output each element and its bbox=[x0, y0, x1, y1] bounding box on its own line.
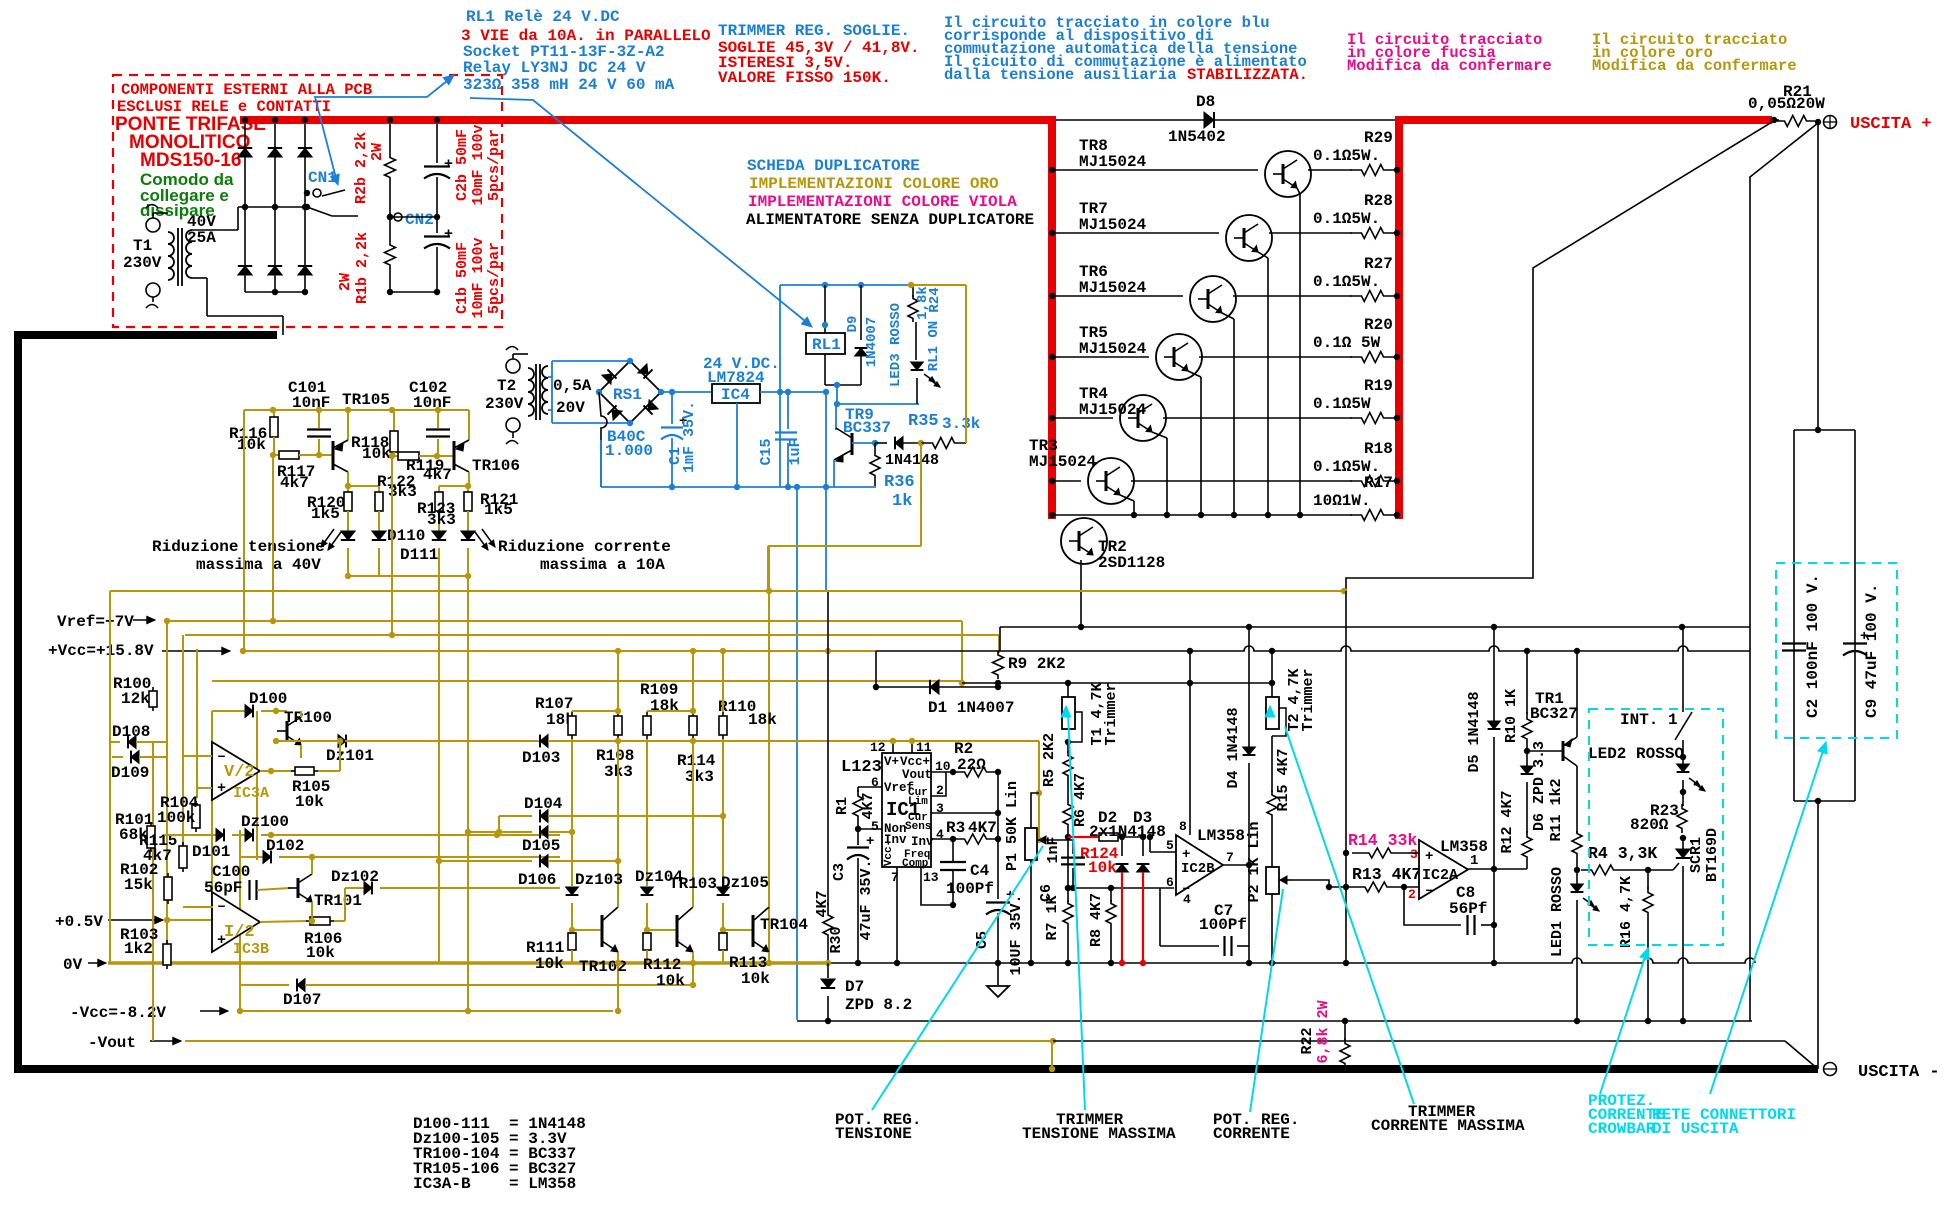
svg-text:SCHEDA DUPLICATORE: SCHEDA DUPLICATORE bbox=[747, 157, 920, 175]
svg-text:25A: 25A bbox=[187, 229, 216, 247]
svg-text:SCR1: SCR1 bbox=[1688, 837, 1705, 873]
svg-text:LM358: LM358 bbox=[1440, 838, 1488, 856]
svg-text:12: 12 bbox=[870, 740, 886, 755]
svg-text:R29: R29 bbox=[1364, 129, 1393, 147]
svg-text:2W: 2W bbox=[369, 143, 386, 161]
svg-text:-Vcc=-8.2V: -Vcc=-8.2V bbox=[70, 1004, 166, 1022]
svg-text:D105: D105 bbox=[522, 837, 560, 855]
svg-text:1k5: 1k5 bbox=[484, 501, 513, 519]
svg-text:3.3k: 3.3k bbox=[942, 415, 981, 433]
svg-text:R36: R36 bbox=[884, 473, 915, 492]
svg-text:R2b 2,2k: R2b 2,2k bbox=[353, 132, 370, 204]
svg-text:R6 4K7: R6 4K7 bbox=[1072, 773, 1089, 827]
svg-text:3k3: 3k3 bbox=[685, 768, 714, 786]
svg-text:C2b 50mF: C2b 50mF bbox=[454, 129, 471, 201]
svg-text:5: 5 bbox=[871, 819, 879, 834]
svg-text:10k: 10k bbox=[237, 436, 266, 454]
svg-text:C9 47uF 100 V.: C9 47uF 100 V. bbox=[1863, 584, 1881, 718]
svg-text:D1 1N4007: D1 1N4007 bbox=[928, 699, 1014, 717]
svg-text:Vcc-: Vcc- bbox=[883, 840, 895, 866]
svg-text:CN2: CN2 bbox=[405, 211, 434, 229]
svg-text:V/2: V/2 bbox=[224, 763, 255, 782]
svg-text:D100: D100 bbox=[249, 690, 287, 708]
svg-text:0.1Ω 5W: 0.1Ω 5W bbox=[1313, 334, 1381, 352]
svg-text:ALIMENTATORE SENZA DUPLICATORE: ALIMENTATORE SENZA DUPLICATORE bbox=[746, 211, 1034, 229]
svg-text:1.000: 1.000 bbox=[605, 442, 653, 460]
svg-text:+0.5V: +0.5V bbox=[55, 913, 103, 931]
svg-text:TR101: TR101 bbox=[314, 892, 362, 910]
svg-text:IC3B: IC3B bbox=[233, 941, 269, 958]
svg-text:MJ15024: MJ15024 bbox=[1079, 340, 1147, 358]
svg-text:10nF: 10nF bbox=[292, 394, 330, 412]
svg-text:TR100: TR100 bbox=[284, 709, 332, 727]
svg-text:10mF 100v: 10mF 100v bbox=[470, 237, 487, 318]
svg-text:4k7: 4k7 bbox=[423, 466, 452, 484]
svg-text:10mF 100v: 10mF 100v bbox=[470, 124, 487, 205]
svg-text:1mF 35V.: 1mF 35V. bbox=[681, 401, 698, 473]
svg-text:R1b 2,2k: R1b 2,2k bbox=[354, 232, 371, 304]
svg-text:IC2B: IC2B bbox=[1181, 861, 1215, 877]
svg-text:ZPD 8.2: ZPD 8.2 bbox=[845, 996, 912, 1014]
svg-text:R20: R20 bbox=[1364, 316, 1393, 334]
svg-text:100Pf: 100Pf bbox=[946, 880, 994, 898]
svg-text:TR106: TR106 bbox=[472, 457, 520, 475]
svg-text:0.1Ω5W.: 0.1Ω5W. bbox=[1313, 210, 1380, 228]
svg-text:R19: R19 bbox=[1364, 377, 1393, 395]
svg-text:I/2: I/2 bbox=[224, 923, 255, 942]
svg-text:+Vcc=+15.8V: +Vcc=+15.8V bbox=[48, 642, 154, 660]
svg-text:BC337: BC337 bbox=[843, 419, 891, 437]
svg-text:1N5402: 1N5402 bbox=[1168, 128, 1226, 146]
svg-text:D103: D103 bbox=[522, 749, 560, 767]
svg-text:3k3: 3k3 bbox=[427, 511, 456, 529]
svg-text:R24: R24 bbox=[927, 287, 943, 312]
svg-text:R30: R30 bbox=[828, 926, 845, 953]
svg-text:R1: R1 bbox=[834, 797, 851, 815]
svg-text:MJ15024: MJ15024 bbox=[1079, 279, 1147, 297]
svg-text:18k: 18k bbox=[748, 711, 777, 729]
svg-text:Riduzione corrente: Riduzione corrente bbox=[498, 538, 671, 556]
svg-text:0.1Ω5W.: 0.1Ω5W. bbox=[1313, 147, 1380, 165]
svg-text:230V: 230V bbox=[485, 395, 524, 413]
svg-text:LED3 ROSSO: LED3 ROSSO bbox=[888, 303, 904, 387]
svg-text:R10 1K: R10 1K bbox=[1503, 689, 1520, 743]
svg-text:10Ω1W.: 10Ω1W. bbox=[1313, 492, 1371, 510]
svg-text:R22: R22 bbox=[1299, 1027, 1316, 1054]
svg-text:10k: 10k bbox=[741, 970, 770, 988]
svg-text:R17: R17 bbox=[1364, 474, 1393, 492]
svg-text:Vref=+7V: Vref=+7V bbox=[57, 613, 134, 631]
svg-text:R13 4K7: R13 4K7 bbox=[1352, 865, 1421, 884]
svg-text:TR105: TR105 bbox=[342, 391, 390, 409]
svg-text:R12 4K7: R12 4K7 bbox=[1499, 790, 1516, 853]
svg-text:6: 6 bbox=[1166, 875, 1174, 890]
svg-text:+: + bbox=[444, 156, 453, 173]
svg-text:5pcs/par: 5pcs/par bbox=[486, 242, 503, 314]
svg-text:R3: R3 bbox=[946, 819, 965, 837]
svg-text:4k7: 4k7 bbox=[280, 474, 309, 492]
svg-text:323Ω 358 mH 24 V 60 mA: 323Ω 358 mH 24 V 60 mA bbox=[463, 76, 675, 94]
svg-text:C2 100nF 100 V.: C2 100nF 100 V. bbox=[1804, 574, 1822, 718]
svg-text:R8 4K7: R8 4K7 bbox=[1088, 893, 1105, 947]
svg-text:10k: 10k bbox=[306, 944, 335, 962]
svg-text:Trimmer: Trimmer bbox=[1300, 668, 1317, 731]
svg-text:BC327: BC327 bbox=[1530, 705, 1578, 723]
svg-text:1: 1 bbox=[1470, 853, 1478, 869]
svg-text:10k: 10k bbox=[295, 793, 324, 811]
svg-text:D101: D101 bbox=[192, 843, 230, 861]
svg-text:Vout: Vout bbox=[902, 768, 932, 782]
svg-text:TENSIONE: TENSIONE bbox=[835, 1125, 912, 1143]
svg-text:10nF: 10nF bbox=[413, 394, 451, 412]
svg-text:TR103: TR103 bbox=[669, 875, 717, 893]
svg-text:P1 50K Lin: P1 50K Lin bbox=[1004, 781, 1021, 871]
svg-text:5: 5 bbox=[1166, 838, 1174, 853]
svg-text:12k: 12k bbox=[121, 690, 150, 708]
svg-text:RL1: RL1 bbox=[812, 336, 841, 354]
svg-text:2W: 2W bbox=[337, 273, 354, 291]
svg-text:D5 1N4148: D5 1N4148 bbox=[1466, 691, 1483, 772]
svg-text:10k: 10k bbox=[656, 972, 685, 990]
svg-text:15k: 15k bbox=[124, 876, 153, 894]
svg-text:4K7: 4K7 bbox=[860, 792, 877, 819]
svg-text:Dz103: Dz103 bbox=[575, 871, 623, 889]
svg-text:Trimmer: Trimmer bbox=[1103, 682, 1120, 745]
svg-text:C3: C3 bbox=[831, 863, 848, 881]
svg-text:56pF: 56pF bbox=[204, 879, 242, 897]
svg-text:+: + bbox=[444, 226, 453, 243]
svg-text:R9 2K2: R9 2K2 bbox=[1008, 655, 1066, 673]
svg-text:3: 3 bbox=[1410, 847, 1418, 862]
svg-text:0V: 0V bbox=[63, 956, 83, 974]
svg-text:TENSIONE MASSIMA: TENSIONE MASSIMA bbox=[1022, 1125, 1176, 1143]
svg-text:IC2A: IC2A bbox=[1422, 867, 1458, 884]
svg-text:+: + bbox=[217, 780, 226, 797]
svg-text:D6 ZPD 3.3: D6 ZPD 3.3 bbox=[1531, 741, 1548, 831]
svg-text:IMPLEMENTAZIONI COLORE ORO: IMPLEMENTAZIONI COLORE ORO bbox=[749, 175, 999, 193]
svg-text:MJ15024: MJ15024 bbox=[1079, 401, 1147, 419]
svg-text:C6: C6 bbox=[1038, 884, 1055, 902]
svg-text:BT169D: BT169D bbox=[1704, 828, 1721, 882]
svg-text:D108: D108 bbox=[112, 723, 150, 741]
svg-text:D8: D8 bbox=[1196, 93, 1215, 111]
svg-text:C15: C15 bbox=[758, 438, 775, 465]
svg-text:R28: R28 bbox=[1364, 192, 1393, 210]
svg-text:10UF 35V.: 10UF 35V. bbox=[1008, 894, 1025, 975]
svg-text:2x1N4148: 2x1N4148 bbox=[1089, 823, 1166, 841]
svg-text:Dz100: Dz100 bbox=[241, 813, 289, 831]
svg-text:1nF: 1nF bbox=[1045, 836, 1062, 863]
svg-text:USCITA +: USCITA + bbox=[1850, 115, 1932, 134]
svg-text:D107: D107 bbox=[283, 991, 321, 1009]
svg-text:R16 4,7K: R16 4,7K bbox=[1618, 876, 1635, 948]
svg-text:+: + bbox=[1425, 849, 1433, 865]
svg-text:R14 33k: R14 33k bbox=[1348, 831, 1417, 850]
svg-text:820Ω: 820Ω bbox=[1630, 816, 1669, 834]
svg-text:dalla tensione ausiliaria: dalla tensione ausiliaria bbox=[944, 66, 1186, 84]
svg-text:7: 7 bbox=[1226, 850, 1234, 865]
svg-text:4K7: 4K7 bbox=[814, 890, 831, 917]
svg-text:Inv: Inv bbox=[911, 835, 934, 849]
svg-text:10k: 10k bbox=[362, 445, 391, 463]
svg-text:Riduzione tensione: Riduzione tensione bbox=[152, 538, 325, 556]
svg-text:Modifica da confermare: Modifica da confermare bbox=[1592, 57, 1797, 75]
svg-text:R27: R27 bbox=[1364, 255, 1393, 273]
svg-text:100k: 100k bbox=[157, 809, 196, 827]
svg-text:R35: R35 bbox=[908, 412, 939, 431]
svg-text:1k5: 1k5 bbox=[311, 505, 340, 523]
svg-text:CORRENTE MASSIMA: CORRENTE MASSIMA bbox=[1371, 1117, 1525, 1135]
svg-text:8: 8 bbox=[1179, 819, 1187, 834]
svg-text:D7: D7 bbox=[845, 978, 864, 996]
svg-text:0,05Ω20W: 0,05Ω20W bbox=[1748, 95, 1825, 113]
svg-text:RL1 ON: RL1 ON bbox=[926, 321, 942, 371]
svg-text:6,8k 2W: 6,8k 2W bbox=[1315, 1000, 1332, 1063]
svg-text:C1b 50mF: C1b 50mF bbox=[454, 242, 471, 314]
svg-text:1N4007: 1N4007 bbox=[864, 317, 880, 367]
svg-text:20V: 20V bbox=[556, 399, 585, 417]
svg-text:Dz105: Dz105 bbox=[721, 874, 769, 892]
svg-text:+: + bbox=[866, 834, 874, 850]
svg-text:T2: T2 bbox=[497, 377, 516, 395]
svg-text:–: – bbox=[1425, 883, 1433, 899]
svg-text:D106: D106 bbox=[518, 871, 556, 889]
svg-text:R11 1k2: R11 1k2 bbox=[1548, 778, 1565, 841]
svg-text:R5 2K2: R5 2K2 bbox=[1041, 733, 1058, 787]
svg-text:1uF: 1uF bbox=[787, 438, 804, 465]
svg-text:C4: C4 bbox=[970, 862, 990, 880]
svg-text:1k2: 1k2 bbox=[124, 940, 153, 958]
svg-text:11: 11 bbox=[916, 740, 932, 755]
svg-text:Dz101: Dz101 bbox=[326, 747, 374, 765]
svg-text:4: 4 bbox=[1183, 892, 1191, 907]
svg-text:RL1 Relè 24 V.DC: RL1 Relè 24 V.DC bbox=[466, 8, 620, 26]
svg-text:Relay LY3NJ DC 24 V: Relay LY3NJ DC 24 V bbox=[463, 59, 646, 77]
svg-text:–: – bbox=[217, 898, 226, 915]
svg-text:IMPLEMENTAZIONI COLORE VIOLA: IMPLEMENTAZIONI COLORE VIOLA bbox=[748, 193, 1017, 211]
svg-text:MJ15024: MJ15024 bbox=[1079, 153, 1147, 171]
svg-text:IC4: IC4 bbox=[721, 386, 750, 404]
svg-text:LED2 ROSSO: LED2 ROSSO bbox=[1588, 745, 1684, 763]
svg-text:0,5A: 0,5A bbox=[553, 377, 592, 395]
svg-text:5pcs/par: 5pcs/par bbox=[486, 129, 503, 201]
svg-text:IC3A: IC3A bbox=[233, 785, 269, 802]
svg-text:D104: D104 bbox=[524, 795, 563, 813]
svg-text:TR104: TR104 bbox=[760, 916, 808, 934]
svg-text:R18: R18 bbox=[1364, 440, 1393, 458]
svg-text:230V: 230V bbox=[123, 254, 162, 272]
svg-text:D4 1N4148: D4 1N4148 bbox=[1225, 707, 1242, 788]
svg-text:0.1Ω5W.: 0.1Ω5W. bbox=[1313, 273, 1380, 291]
svg-text:MJ15024: MJ15024 bbox=[1079, 216, 1147, 234]
svg-text:D111: D111 bbox=[400, 546, 438, 564]
svg-text:10k: 10k bbox=[535, 955, 564, 973]
svg-text:Vcc+: Vcc+ bbox=[900, 755, 930, 769]
svg-text:Comp: Comp bbox=[902, 858, 929, 870]
svg-text:D9: D9 bbox=[845, 316, 861, 333]
svg-text:-Vout: -Vout bbox=[88, 1034, 136, 1052]
svg-text:MDS150-16: MDS150-16 bbox=[140, 150, 241, 171]
svg-text:13: 13 bbox=[923, 870, 939, 885]
svg-text:47uF 35V.: 47uF 35V. bbox=[858, 859, 875, 940]
svg-text:IC3A-B = LM358: IC3A-B = LM358 bbox=[413, 1175, 576, 1193]
svg-text:Modifica da confermare: Modifica da confermare bbox=[1347, 57, 1552, 75]
svg-text:0.1Ω5W: 0.1Ω5W bbox=[1313, 395, 1371, 413]
svg-text:R15 4K7: R15 4K7 bbox=[1275, 748, 1292, 811]
svg-text:2SD1128: 2SD1128 bbox=[1098, 554, 1165, 572]
svg-text:1k: 1k bbox=[892, 492, 912, 511]
svg-text:LED1 ROSSO: LED1 ROSSO bbox=[1549, 867, 1566, 957]
svg-text:LM358: LM358 bbox=[1197, 827, 1245, 845]
svg-text:massima a 40V: massima a 40V bbox=[196, 556, 321, 574]
svg-text:CROWBAR: CROWBAR bbox=[1588, 1120, 1656, 1138]
svg-text:RS1: RS1 bbox=[613, 386, 642, 404]
svg-text:D109: D109 bbox=[111, 764, 149, 782]
svg-text:INT. 1: INT. 1 bbox=[1620, 711, 1678, 729]
svg-text:DI USCITA: DI USCITA bbox=[1652, 1120, 1739, 1138]
svg-text:USCITA -: USCITA - bbox=[1858, 1063, 1940, 1082]
svg-text:R4 3,3K: R4 3,3K bbox=[1588, 844, 1657, 863]
svg-text:10k: 10k bbox=[1088, 859, 1117, 877]
svg-text:STABILIZZATA.: STABILIZZATA. bbox=[1187, 66, 1308, 84]
svg-text:Sens: Sens bbox=[905, 821, 931, 833]
svg-text:massima a 10A: massima a 10A bbox=[540, 556, 665, 574]
svg-text:100Pf: 100Pf bbox=[1199, 916, 1247, 934]
svg-text:2: 2 bbox=[1408, 887, 1416, 902]
svg-text:18k: 18k bbox=[650, 697, 679, 715]
svg-text:1N4148: 1N4148 bbox=[885, 452, 939, 469]
svg-text:V+: V+ bbox=[884, 755, 899, 769]
svg-text:MJ15024: MJ15024 bbox=[1029, 453, 1097, 471]
svg-text:CORRENTE: CORRENTE bbox=[1213, 1125, 1290, 1143]
svg-text:T1: T1 bbox=[133, 237, 152, 255]
svg-text:VALORE FISSO 150K.: VALORE FISSO 150K. bbox=[718, 69, 891, 87]
svg-text:TRIMMER REG. SOGLIE.: TRIMMER REG. SOGLIE. bbox=[718, 22, 910, 40]
